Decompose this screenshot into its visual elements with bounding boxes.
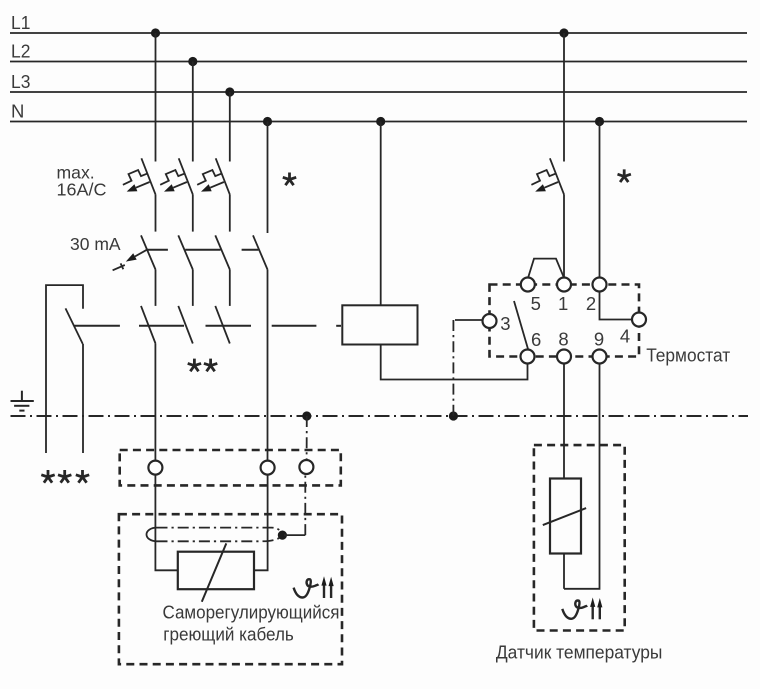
bus L2: [10, 61, 747, 63]
svg-text:16A/C: 16A/C: [57, 180, 107, 200]
svg-text:2: 2: [586, 293, 596, 314]
terminal 8: [557, 350, 571, 364]
svg-text:Саморегулирующийся: Саморегулирующийся: [163, 602, 340, 623]
wire breaker2 to RCD2: [192, 194, 194, 231]
svg-text:Термостат: Термостат: [646, 344, 730, 365]
RCD coupling link: [146, 249, 259, 251]
svg-text:6: 6: [531, 329, 541, 350]
contactor pole 1: [141, 306, 156, 344]
sensor element: [550, 479, 581, 554]
thermostat jumper 5 to 1: [528, 259, 564, 278]
circuit breaker pole 2: [160, 158, 193, 194]
wire N to RCD pole 4: [267, 122, 269, 234]
svg-text:30 mA: 30 mA: [70, 234, 121, 254]
heat symbol cable: [294, 576, 334, 598]
thermostat switch blade: [514, 301, 528, 350]
node earth to thermostat 3: [449, 411, 458, 420]
svg-text:8: 8: [558, 328, 568, 349]
self-regulating diagonal: [202, 543, 227, 601]
wire strip L to heater: [155, 475, 177, 571]
svg-text:4: 4: [620, 325, 630, 346]
terminal 2: [593, 278, 607, 292]
RCD pole 1: [141, 235, 156, 269]
shield wire earth to strip: [306, 416, 308, 460]
wire L2 to breaker 2: [192, 62, 194, 162]
breaker right pole: [563, 33, 565, 162]
ground symbol: [11, 391, 34, 411]
node earth to heating shield: [302, 411, 311, 420]
temperature sensor enclosure: [534, 445, 625, 630]
RCD pole 3: [215, 235, 230, 269]
sensor diagonal: [543, 508, 586, 525]
svg-text:греющий кабель: греющий кабель: [163, 624, 293, 645]
terminal 6: [521, 350, 535, 364]
heating terminal strip: [120, 450, 341, 485]
node shield junction: [278, 531, 287, 540]
relay coil K1: [342, 305, 417, 344]
contactor coupling link to coil: [74, 325, 341, 327]
svg-text:1: 1: [558, 293, 568, 314]
contactor pole 2: [178, 306, 193, 344]
node N tap middle: [376, 117, 385, 126]
wire RCD3 to contactor3: [229, 270, 231, 306]
aux contact blade: [66, 308, 83, 344]
thermostat enclosure: [490, 285, 640, 357]
node L3 tap: [225, 87, 234, 96]
shield wire terminal 3 to earth: [452, 320, 454, 416]
RCD trip arrow: [113, 250, 147, 271]
node L2 tap: [188, 57, 197, 66]
wire aux contact down: [82, 344, 84, 453]
wire sensor bottom: [563, 554, 565, 589]
wire breaker right to thermostat 1: [563, 194, 565, 277]
heating cable enclosure: [119, 514, 342, 664]
bus L3: [10, 91, 747, 93]
svg-text:N: N: [11, 101, 24, 122]
wire breaker1 to RCD1: [155, 194, 157, 231]
earth dash-dot line: [11, 415, 749, 417]
wire breaker3 to RCD3: [229, 194, 231, 231]
cable shield loop: [147, 528, 157, 542]
note asterisk triple: [41, 470, 54, 483]
svg-text:Датчик температуры: Датчик температуры: [496, 642, 663, 663]
left bracket wire: [46, 285, 83, 453]
node N tap right: [595, 117, 604, 126]
terminal 5: [521, 278, 535, 292]
node N tap left: [263, 117, 272, 126]
terminal 1: [557, 278, 571, 292]
wire shield junction to strip PE: [284, 534, 305, 536]
terminal 4: [632, 313, 646, 327]
contactor pole 3: [215, 306, 230, 344]
note asterisk left: [283, 173, 296, 186]
wire terminal 3: [455, 319, 483, 321]
wire L3 to breaker 3: [229, 92, 231, 162]
heat symbol sensor: [562, 598, 602, 620]
circuit breaker pole 3: [197, 158, 230, 194]
wire N to coil: [380, 122, 382, 306]
wire thermostat 9 to sensor: [564, 364, 600, 589]
jumper terminal 2 to 4: [600, 292, 633, 320]
svg-text:9: 9: [594, 328, 604, 349]
wire coil to thermostat 6: [381, 345, 528, 380]
RCD pole 2: [178, 235, 193, 269]
wire strip N to heater: [254, 475, 268, 571]
svg-text:3: 3: [500, 313, 510, 334]
node L1 tap right: [559, 28, 568, 37]
terminal 3: [483, 314, 497, 328]
wire RCD2 to contactor2: [192, 270, 194, 306]
node L1 tap: [151, 28, 160, 37]
svg-text:L2: L2: [11, 41, 30, 62]
bus N: [10, 121, 747, 123]
strip terminal L: [148, 461, 162, 475]
svg-text:L3: L3: [11, 71, 30, 92]
note asterisk right: [618, 169, 631, 182]
wire L1 to breaker 1: [155, 33, 157, 162]
strip terminal PE: [299, 460, 313, 474]
RCD pole 4: [253, 235, 268, 269]
heating element: [178, 552, 254, 590]
circuit breaker pole 1: [123, 158, 156, 194]
svg-text:L1: L1: [11, 12, 30, 33]
wire contactor1 down to heating terminal: [154, 344, 156, 461]
strip terminal N: [261, 461, 275, 475]
wire thermostat 8 to sensor: [563, 364, 565, 479]
note asterisk double: [188, 359, 201, 372]
bus L1: [10, 32, 747, 34]
svg-text:5: 5: [531, 293, 541, 314]
wire RCD4 down to terminal strip: [267, 270, 269, 461]
terminal 9: [593, 350, 607, 364]
wire RCD1 to contactor1: [155, 270, 157, 306]
wire N to thermostat 2: [599, 122, 601, 278]
